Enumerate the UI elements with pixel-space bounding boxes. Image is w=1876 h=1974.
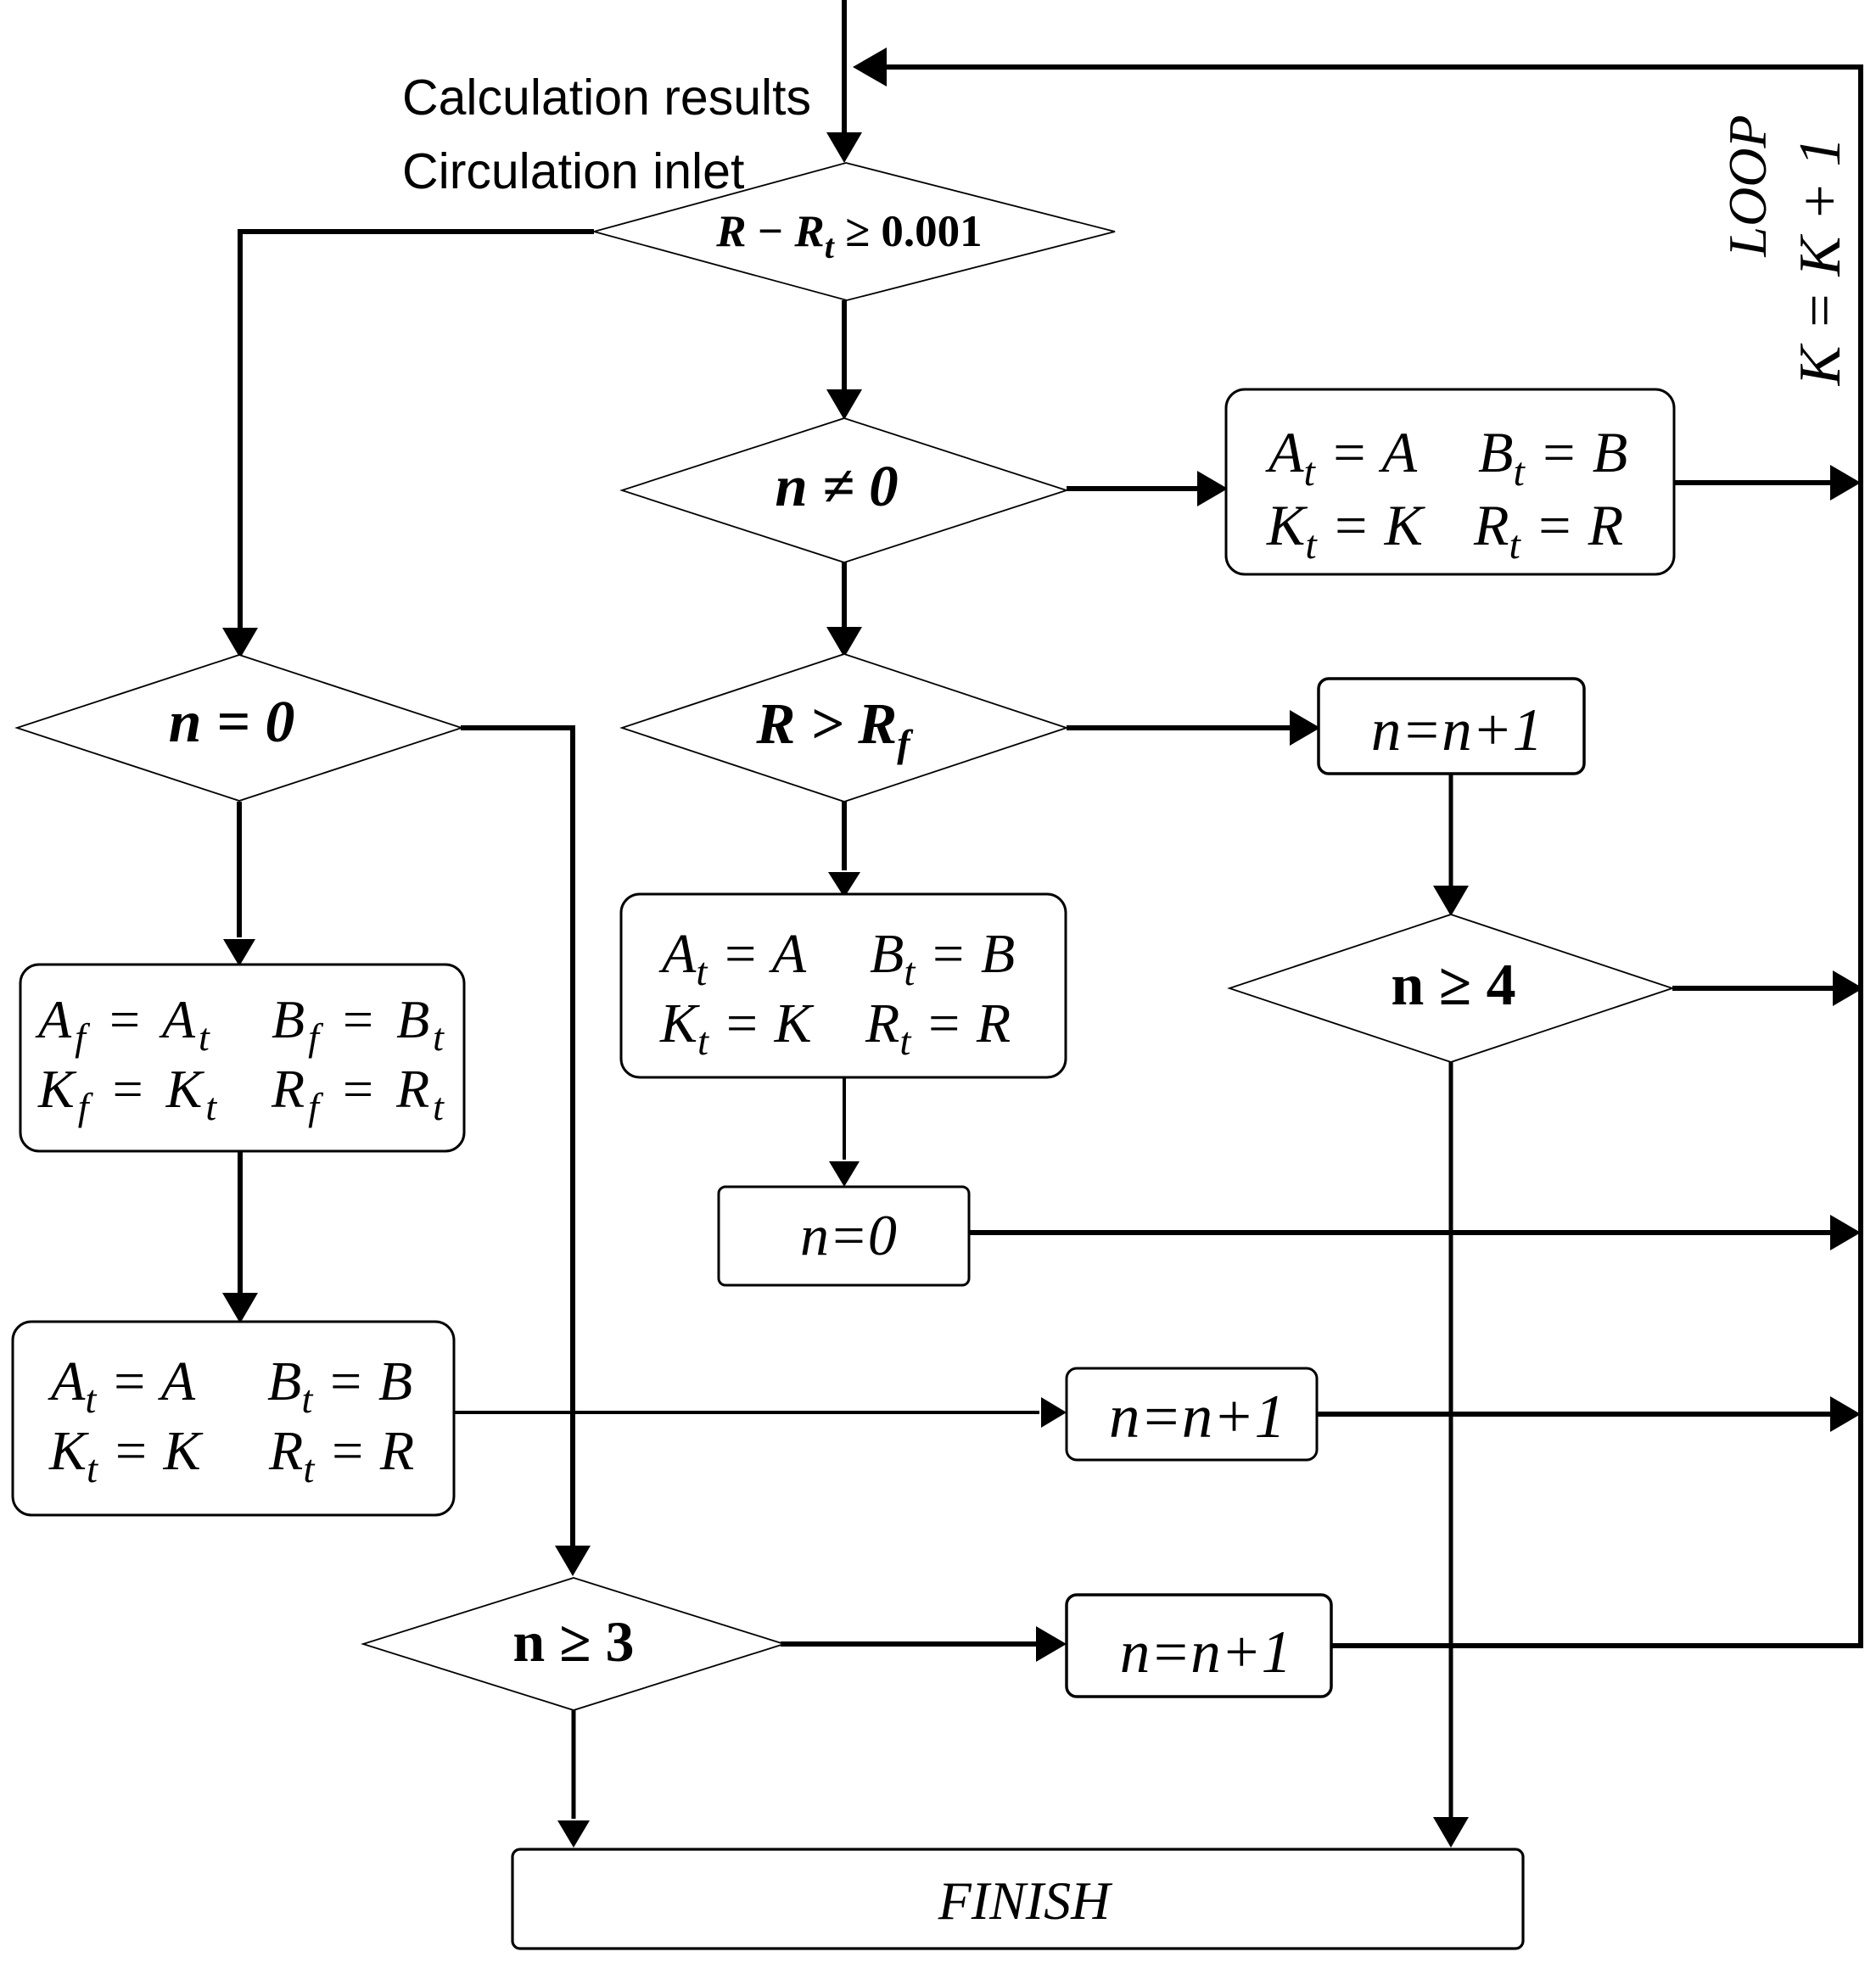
svg-text:n=0: n=0 <box>800 1203 897 1267</box>
svg-text:Bt = B: Bt = B <box>870 923 1015 994</box>
svg-text:Af = At: Af = At <box>35 989 213 1059</box>
svg-text:Rt = R: Rt = R <box>1473 493 1623 568</box>
svg-text:Bt = B: Bt = B <box>1478 420 1627 495</box>
svg-text:n ≥ 3: n ≥ 3 <box>512 1609 634 1674</box>
svg-text:n ≥ 4: n ≥ 4 <box>1391 953 1515 1018</box>
svg-text:Rf = Rt: Rf = Rt <box>271 1059 447 1128</box>
svg-text:Bt = B: Bt = B <box>267 1350 412 1422</box>
svg-text:Kt = K: Kt = K <box>659 993 815 1064</box>
svg-text:At = A: At = A <box>1265 420 1418 495</box>
svg-text:At = A: At = A <box>658 923 807 994</box>
svg-text:K = K + 1: K = K + 1 <box>1788 137 1853 387</box>
svg-text:n=n+1: n=n+1 <box>1371 697 1543 763</box>
svg-text:Bf = Bt: Bf = Bt <box>272 989 447 1059</box>
svg-text:n=n+1: n=n+1 <box>1120 1619 1291 1686</box>
svg-text:n ≠ 0: n ≠ 0 <box>775 454 898 518</box>
svg-text:Rt = R: Rt = R <box>268 1420 414 1491</box>
svg-text:LOOP: LOOP <box>1717 115 1778 257</box>
svg-text:Kt = K: Kt = K <box>1266 493 1426 568</box>
svg-text:n = 0: n = 0 <box>169 690 295 755</box>
svg-text:n=n+1: n=n+1 <box>1109 1382 1285 1451</box>
svg-text:Calculation results: Calculation results <box>402 70 811 126</box>
svg-text:FINISH: FINISH <box>938 1871 1113 1931</box>
svg-text:Kt = K: Kt = K <box>48 1420 204 1491</box>
svg-text:Rt = R: Rt = R <box>865 993 1011 1064</box>
svg-text:Kf = Kt: Kf = Kt <box>37 1059 220 1128</box>
svg-text:R > Rf: R > Rf <box>755 691 914 765</box>
svg-text:Circulation inlet: Circulation inlet <box>402 143 744 199</box>
svg-text:At = A: At = A <box>48 1350 196 1422</box>
